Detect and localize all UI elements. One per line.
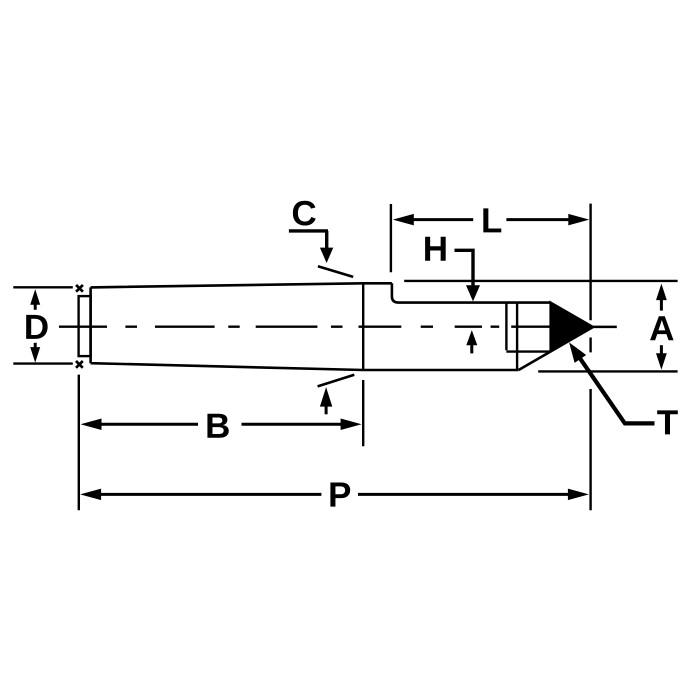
T leader with arrow: [569, 342, 654, 423]
D bottom extension line: [13, 362, 73, 364]
D dimension up arrow: [30, 289, 40, 310]
label P: [330, 483, 350, 507]
carbide insert horizontal joint: [506, 350, 550, 352]
x mark bottom: [76, 361, 83, 368]
A dimension up arrow: [656, 284, 667, 311]
carbide insert joint line 1: [505, 303, 507, 351]
H up arrow below centerline: [466, 330, 477, 353]
D dimension down arrow: [30, 343, 40, 363]
filled cone tip triangle: [550, 302, 593, 351]
A dimension down arrow: [656, 345, 667, 370]
B dimension line with arrows: [81, 418, 362, 430]
label T: [657, 410, 678, 434]
label C: [293, 201, 316, 226]
tang rectangle at left end: [79, 296, 91, 356]
label B: [207, 414, 228, 438]
B P left extension line: [78, 375, 80, 511]
H leader with down arrow: [455, 250, 481, 301]
body outline: taper shank: [91, 283, 519, 370]
label H: [425, 237, 446, 261]
cone lower edge: [519, 327, 594, 370]
D top extension line: [13, 286, 73, 288]
B right extension line: [362, 380, 364, 446]
label L: [483, 208, 501, 232]
L left extension line: [390, 204, 392, 272]
label D: [26, 315, 47, 339]
label A: [650, 316, 673, 340]
P dimension line with arrows: [80, 489, 589, 501]
L P right extension line: [589, 204, 591, 511]
chamfer up arrow bottom: [320, 387, 332, 414]
L dimension line with arrows: [393, 214, 590, 226]
chamfer tick bottom: [318, 375, 355, 387]
C leader with down arrow: [289, 231, 333, 263]
centerline tail right of apex: [593, 326, 617, 329]
A top extension line: [404, 280, 677, 282]
body step fillet to reduced section: [392, 283, 551, 302]
chamfer tick top: [318, 266, 353, 277]
taper/body juncture line: [362, 283, 364, 370]
A bottom extension line: [538, 370, 677, 372]
carbide insert joint line 2: [516, 303, 518, 369]
x mark top: [76, 285, 83, 292]
centerline: [59, 326, 552, 328]
